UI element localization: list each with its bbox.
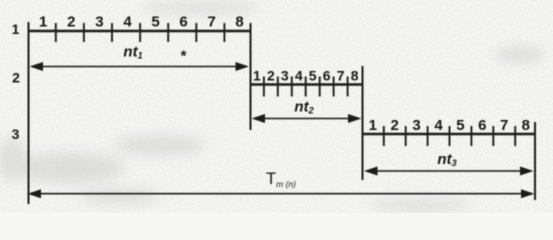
svg-text:5: 5 bbox=[309, 68, 317, 84]
dimension arrow nt3 bbox=[364, 167, 534, 176]
svg-text:7: 7 bbox=[500, 117, 508, 134]
svg-text:8: 8 bbox=[351, 68, 359, 84]
ruler line level 2 bbox=[250, 83, 363, 85]
wire: right vertical end line bbox=[534, 122, 536, 200]
svg-text:8: 8 bbox=[235, 14, 243, 31]
svg-text:7: 7 bbox=[337, 68, 345, 84]
svg-text:6: 6 bbox=[323, 68, 331, 84]
svg-text:4: 4 bbox=[295, 68, 303, 84]
svg-text:5: 5 bbox=[151, 14, 159, 31]
ruler line level 3 bbox=[362, 133, 535, 135]
svg-text:3: 3 bbox=[281, 68, 289, 84]
svg-text:1: 1 bbox=[39, 14, 47, 31]
svg-text:3: 3 bbox=[12, 126, 20, 142]
wire: mid vertical line between level 2 and level 3 bbox=[362, 66, 364, 180]
svg-text:4: 4 bbox=[434, 117, 443, 134]
tick numbers level 1 bbox=[39, 14, 244, 31]
tick numbers level 3 bbox=[369, 117, 530, 134]
ticks level 2 bbox=[264, 77, 348, 97]
svg-text:5: 5 bbox=[456, 117, 464, 134]
svg-text:2: 2 bbox=[12, 70, 20, 86]
svg-text:3: 3 bbox=[412, 117, 420, 134]
svg-text:3: 3 bbox=[95, 14, 103, 31]
svg-text:1: 1 bbox=[253, 68, 261, 84]
svg-text:6: 6 bbox=[478, 117, 486, 134]
dimension arrow nt2 bbox=[252, 114, 362, 123]
svg-text:2: 2 bbox=[267, 68, 275, 84]
svg-text:1: 1 bbox=[369, 117, 377, 134]
svg-text:7: 7 bbox=[208, 14, 216, 31]
svg-text:1: 1 bbox=[12, 21, 20, 37]
dimension arrow nt1 bbox=[30, 62, 250, 71]
ticks level 3 bbox=[384, 126, 515, 146]
svg-text:8: 8 bbox=[522, 117, 530, 134]
svg-text:4: 4 bbox=[123, 14, 132, 31]
svg-text:*: * bbox=[181, 48, 187, 65]
svg-text:2: 2 bbox=[67, 14, 75, 31]
dimension arrow Tm(n) total period bbox=[28, 189, 535, 198]
wire: mid vertical line between level 1 and level 2 bbox=[250, 23, 252, 130]
wire: left vertical axis line bbox=[28, 22, 30, 204]
ticks level 1 bbox=[56, 23, 225, 42]
tick numbers level 2 bbox=[253, 68, 359, 84]
ruler line level 1 bbox=[28, 30, 251, 32]
svg-text:6: 6 bbox=[179, 14, 187, 31]
svg-text:2: 2 bbox=[391, 117, 399, 134]
